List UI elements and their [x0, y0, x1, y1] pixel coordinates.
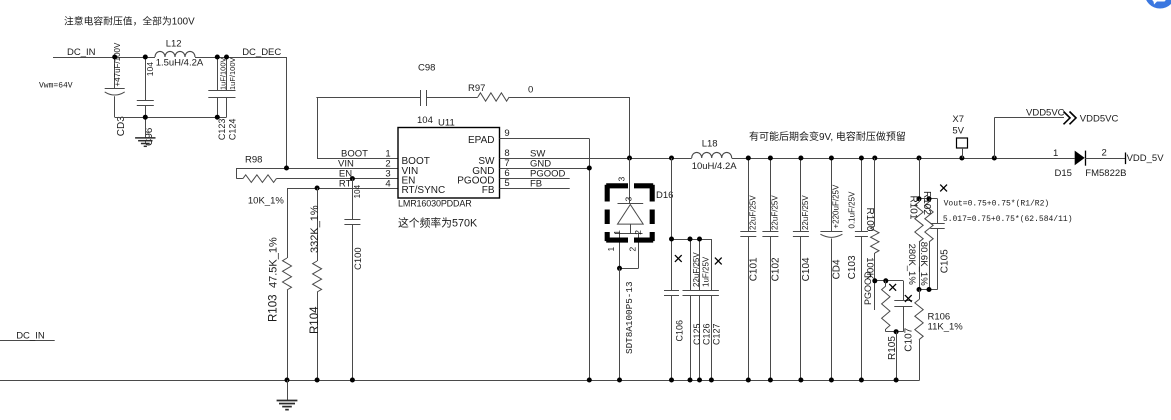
svg-text:+220uF/25V: +220uF/25V	[832, 184, 841, 228]
svg-text:VDD5VC: VDD5VC	[1080, 114, 1119, 125]
svg-text:C106: C106	[675, 320, 685, 342]
svg-text:0: 0	[528, 85, 533, 96]
svg-text:C105: C105	[939, 249, 950, 273]
svg-text:L18: L18	[702, 139, 718, 150]
svg-text:D15: D15	[1055, 168, 1072, 179]
svg-text:2: 2	[1102, 148, 1107, 159]
svg-text:4: 4	[385, 179, 390, 190]
svg-text:C123: C123	[217, 119, 227, 141]
svg-text:C126: C126	[702, 323, 712, 345]
svg-text:2: 2	[627, 247, 637, 252]
svg-text:RT: RT	[339, 179, 352, 190]
svg-text:104: 104	[417, 115, 433, 126]
svg-text:R100: R100	[864, 208, 875, 232]
svg-text:C104: C104	[801, 257, 812, 281]
svg-text:3: 3	[617, 177, 627, 182]
svg-text:PGOOD: PGOOD	[863, 271, 873, 305]
svg-text:R97: R97	[468, 83, 485, 94]
svg-text:FB: FB	[482, 185, 495, 196]
svg-text:R101: R101	[907, 196, 918, 220]
svg-text:5: 5	[504, 178, 509, 189]
svg-text:C102: C102	[771, 257, 782, 281]
svg-text:DC_IN: DC_IN	[67, 47, 96, 58]
svg-text:280K_1%: 280K_1%	[906, 244, 917, 286]
svg-text:这个频率为570K: 这个频率为570K	[398, 216, 478, 230]
svg-text:注意电容耐压值，全部为100V: 注意电容耐压值，全部为100V	[64, 15, 195, 28]
svg-text:SDT8A100P5-13: SDT8A100P5-13	[624, 281, 635, 354]
svg-text:VDD_5V: VDD_5V	[1127, 153, 1165, 164]
svg-text:1: 1	[606, 247, 616, 252]
svg-text:22uF/25V: 22uF/25V	[749, 195, 758, 230]
svg-text:+47uF/100V: +47uF/100V	[113, 42, 122, 86]
svg-text:0.1uF/25V: 0.1uF/25V	[848, 191, 857, 229]
svg-text:332K_1%: 332K_1%	[309, 205, 321, 253]
svg-text:1uF/100V: 1uF/100V	[228, 57, 237, 90]
svg-text:104: 104	[353, 184, 362, 198]
svg-text:80.6K_1%: 80.6K_1%	[918, 242, 929, 286]
svg-text:DC_DEC: DC_DEC	[242, 47, 281, 58]
svg-text:11K_1%: 11K_1%	[928, 322, 964, 333]
svg-text:C125: C125	[692, 323, 702, 345]
svg-text:RT/SYNC: RT/SYNC	[402, 185, 446, 196]
svg-text:5.017=0.75+0.75*(62.584/11): 5.017=0.75+0.75*(62.584/11)	[943, 215, 1073, 224]
svg-text:CD3: CD3	[116, 116, 127, 136]
svg-text:22uF/25V: 22uF/25V	[771, 195, 780, 230]
svg-text:47.5K_1%: 47.5K_1%	[268, 237, 280, 288]
svg-text:1uF/100V: 1uF/100V	[218, 57, 227, 90]
svg-text:有可能后期会变9V, 电容耐压做预留: 有可能后期会变9V, 电容耐压做预留	[749, 130, 906, 143]
svg-text:5V: 5V	[952, 126, 964, 137]
svg-text:104: 104	[145, 62, 155, 76]
svg-text:R105: R105	[887, 336, 898, 360]
svg-text:FM5822B: FM5822B	[1085, 168, 1126, 179]
svg-text:R104: R104	[309, 306, 321, 334]
svg-text:2: 2	[633, 230, 643, 235]
svg-text:R103: R103	[268, 295, 280, 323]
svg-text:1.5uH/4.2A: 1.5uH/4.2A	[156, 58, 204, 69]
svg-text:1uF/25V: 1uF/25V	[701, 256, 710, 287]
svg-text:C127: C127	[711, 323, 721, 345]
svg-text:X7: X7	[952, 114, 964, 125]
svg-text:C98: C98	[418, 63, 435, 74]
svg-text:1: 1	[1053, 148, 1058, 159]
svg-text:9: 9	[504, 128, 509, 139]
svg-text:EPAD: EPAD	[468, 135, 495, 146]
svg-text:10K_1%: 10K_1%	[248, 196, 284, 207]
svg-text:Vout=0.75+0.75*(R1/R2): Vout=0.75+0.75*(R1/R2)	[944, 200, 1050, 209]
svg-text:22uF/25V: 22uF/25V	[801, 195, 810, 230]
svg-text:C100: C100	[353, 247, 364, 270]
svg-text:C101: C101	[749, 257, 760, 281]
svg-text:VDD5VC: VDD5VC	[1026, 108, 1065, 119]
svg-text:R98: R98	[245, 155, 262, 166]
svg-text:D16: D16	[656, 190, 673, 201]
svg-text:C124: C124	[228, 119, 238, 141]
svg-text:LMR16030PDDAR: LMR16030PDDAR	[398, 199, 472, 209]
svg-text:FB: FB	[530, 179, 542, 190]
svg-text:C103: C103	[847, 255, 858, 279]
svg-text:DC_IN: DC_IN	[16, 331, 45, 342]
svg-text:R102: R102	[921, 191, 932, 215]
svg-text:CD4: CD4	[832, 259, 843, 279]
svg-text:3: 3	[624, 197, 634, 202]
svg-text:22uF/25V: 22uF/25V	[692, 252, 701, 287]
svg-text:C107: C107	[903, 327, 914, 351]
svg-text:L12: L12	[166, 39, 182, 50]
svg-text:1: 1	[612, 230, 622, 235]
svg-text:Vwm=64V: Vwm=64V	[39, 82, 73, 91]
svg-text:10uH/4.2A: 10uH/4.2A	[692, 161, 738, 172]
